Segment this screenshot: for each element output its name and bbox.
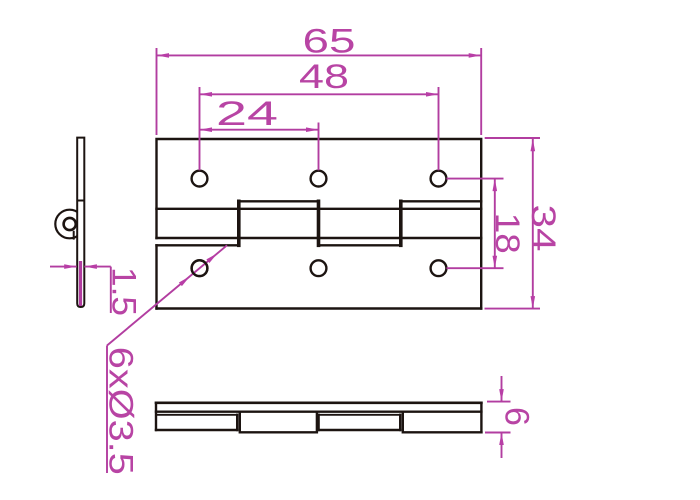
svg-text:48: 48: [299, 58, 349, 96]
svg-text:24: 24: [216, 95, 278, 133]
bottom view: section1 inner thin line: [156, 414, 237, 416]
hole top-left: [192, 171, 208, 187]
bottom view: section1 right vertical: [236, 415, 238, 430]
dim 1.5: extension mark inside strip: [79, 261, 82, 306]
arrow 24 left: [200, 127, 213, 132]
arrow 1.5 left: [64, 264, 77, 269]
dim 48: dimension line: [200, 93, 439, 95]
dim 48: extension line left (shared with 24): [199, 87, 201, 170]
leader 6xØ3.5: vertical line: [106, 346, 108, 474]
bottom view: left outer vertical: [155, 403, 157, 430]
front view: top leaf outline: [157, 139, 482, 309]
svg-text:18: 18: [488, 213, 526, 254]
dim 6: extension line bottom: [485, 432, 511, 434]
hole top-right: [431, 171, 447, 187]
dim 1.5: leader vertical: [110, 267, 112, 313]
dim 65: extension line left: [156, 48, 158, 135]
dim 6: dimension line upper: [501, 376, 503, 402]
front view: knuckle tab top line right: [401, 200, 481, 202]
front view: bottom leaf left edge: [155, 245, 157, 308]
bottom view: section3 left vertical: [317, 415, 319, 430]
dim 18: bottom hole leader: [447, 267, 504, 269]
svg-text:6xØ3.5: 6xØ3.5: [102, 347, 140, 475]
arrow 34 top: [531, 139, 536, 152]
arrow 48 left: [200, 92, 213, 97]
svg-text:6: 6: [498, 407, 536, 426]
arrow leader hole lower: [179, 276, 190, 286]
dim 18: top hole leader: [447, 178, 504, 180]
dim 34: extension line top: [485, 137, 540, 139]
svg-text:65: 65: [303, 23, 356, 61]
bottom view: section2 box: [240, 412, 317, 433]
bottom view: section4 box: [403, 412, 482, 433]
side view: curl tail edge: [73, 231, 75, 240]
arrow 24 right: [306, 127, 319, 132]
dim 1.5: dimension line right part: [84, 266, 110, 268]
side view: leaf strip: [77, 138, 84, 307]
front view: bottom leaf top edge left segment: [157, 244, 239, 246]
hole bottom-left stroke repaint over leader: [192, 260, 208, 276]
arrow 65 right: [469, 53, 482, 58]
dim 48: extension line right: [438, 87, 440, 170]
arrow leader hole upper: [206, 253, 217, 263]
front view: barrel top line: [157, 208, 482, 210]
arrow 65 left: [157, 53, 170, 58]
front view: bottom leaf down-tab segment: [319, 244, 401, 246]
dim 18: dimension line: [494, 179, 496, 269]
dim 6: dimension line lower: [501, 433, 503, 459]
bottom view: section3 bottom: [319, 429, 401, 431]
arrow 6 bottom: [499, 433, 504, 446]
arrow 1.5 right: [84, 264, 97, 269]
front view: knuckle vertical 3: [399, 201, 403, 245]
dim 24: extension line right: [318, 123, 320, 171]
side view: curl outer circle: [55, 210, 84, 239]
dim 34: dimension line: [532, 139, 534, 309]
front view: knuckle vertical 1: [237, 201, 241, 245]
dim 6: extension line top: [487, 401, 511, 403]
dim 65: dimension line: [157, 54, 482, 56]
arrow 18 bottom: [493, 256, 498, 269]
arrow 6 top: [499, 389, 504, 402]
leader 6xØ3.5: diagonal line: [107, 245, 227, 345]
hole top-middle: [311, 171, 327, 187]
hole bottom-middle: [311, 260, 327, 276]
hole bottom-left: [192, 260, 208, 276]
dim 65: extension line right: [480, 48, 482, 135]
dim 34: extension line bottom: [485, 308, 541, 310]
arrow 48 right: [426, 92, 439, 97]
front view: knuckle tab top line left: [239, 200, 319, 202]
dim 24: dimension line: [200, 129, 319, 131]
arrow 18 top: [493, 179, 498, 192]
dim 1.5: dimension line left part: [50, 266, 77, 268]
bottom view: section3 inner thin line: [319, 414, 401, 416]
bottom view: top edge: [156, 401, 481, 404]
front view: knuckle vertical 2: [317, 201, 321, 245]
side view: pin hole inner circle: [64, 218, 76, 230]
svg-text:34: 34: [524, 205, 562, 252]
front view: barrel bottom line: [157, 237, 482, 239]
bottom view: section3 right vertical: [399, 415, 401, 430]
svg-text:1.5: 1.5: [105, 267, 143, 316]
bottom view: inner full-width line: [156, 411, 481, 413]
bottom view: right outer vertical: [480, 403, 482, 433]
side view: curl joint line: [77, 200, 85, 202]
bottom view: section1 bottom: [156, 429, 237, 431]
front view: bottom edge: [157, 307, 482, 309]
arrow 34 bottom: [531, 296, 536, 309]
hole bottom-right: [431, 260, 447, 276]
